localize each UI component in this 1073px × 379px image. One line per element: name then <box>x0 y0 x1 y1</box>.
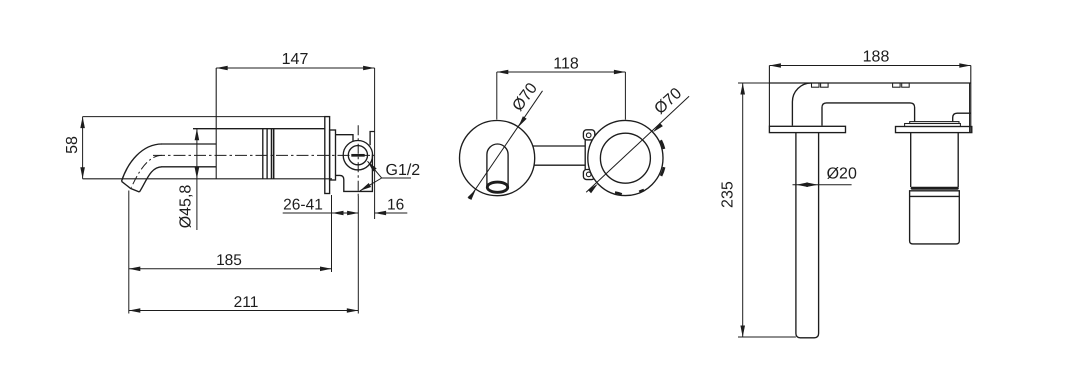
dimension 188 line <box>769 65 970 67</box>
235 top extension <box>738 82 769 84</box>
body left end face / 147 left extension <box>215 68 217 179</box>
G1/2 leader to front port <box>368 161 382 178</box>
port inner circle (G1/2 thread) <box>348 146 367 165</box>
diameter 70 left leader line <box>469 91 543 199</box>
collar behind flange <box>330 130 336 180</box>
spout tube front view (rounded top slot) <box>487 144 508 186</box>
clip pair 1 <box>812 83 820 87</box>
svg-text:58: 58 <box>64 136 81 154</box>
handle body <box>910 191 960 244</box>
147 arrows <box>216 66 228 71</box>
cartridge ring B <box>905 124 961 127</box>
dimension 26-41 line <box>283 212 359 214</box>
spout inner curve <box>139 167 162 192</box>
left escutcheon circle <box>460 121 535 196</box>
dimension 147 <box>216 67 374 69</box>
centerline extension down to 211 dim <box>357 196 359 314</box>
d20 arrows <box>796 182 808 187</box>
cartridge recess rounded rect <box>822 103 915 126</box>
svg-text:188: 188 <box>863 49 890 66</box>
connecting bar top line <box>530 145 585 147</box>
58 top extension line (flange top level) <box>83 116 325 118</box>
diameter 70 right leader line <box>586 96 689 192</box>
235 bottom extension <box>738 336 796 338</box>
G1/2 leader to bottom port <box>360 178 382 191</box>
118 left extension <box>496 72 498 120</box>
svg-text:235: 235 <box>720 181 737 208</box>
svg-text:16: 16 <box>387 197 404 214</box>
dimension 58 line <box>82 117 84 179</box>
port vertical centerline <box>357 125 359 196</box>
right step of body bottom <box>953 113 971 121</box>
spout tube top line <box>162 143 217 145</box>
groove dark band <box>911 187 959 190</box>
svg-text:Ø20: Ø20 <box>827 166 857 183</box>
spout centerline (dash-dot, curved at tip) <box>131 155 162 187</box>
spout tip extension line down <box>128 191 130 314</box>
d45,8 arrows <box>195 129 200 141</box>
G1/2 leader arrows <box>359 183 371 193</box>
58 arrows <box>80 117 85 129</box>
top ear screw hole <box>586 133 591 138</box>
body left edge <box>768 66 770 127</box>
extension line flange edge down <box>331 195 333 272</box>
spout mouth ellipse <box>487 182 507 192</box>
body joint ring lines <box>262 129 264 179</box>
svg-text:147: 147 <box>282 51 309 68</box>
dimension 16 line <box>375 212 408 214</box>
spout body bottom edge (long line to 58 dim) <box>83 178 332 180</box>
26-41 arrows <box>332 211 344 216</box>
in-wall body top edge <box>769 82 970 84</box>
cartridge ring step A <box>910 122 959 124</box>
clip tab right lower <box>661 167 664 176</box>
211 arrows <box>129 308 141 313</box>
wall flange plate <box>325 117 330 194</box>
d70 right arrows <box>651 123 663 134</box>
right escutcheon outer circle <box>588 120 663 195</box>
185 arrows <box>129 267 141 272</box>
svg-text:185: 185 <box>216 252 242 269</box>
handle collar line <box>910 195 960 197</box>
spout escutcheon plate <box>769 126 845 132</box>
valve body top edge and step to port boss <box>336 135 354 141</box>
spout body top edge <box>193 128 325 130</box>
diameter 20 dimension line <box>793 184 852 186</box>
port slot bar <box>351 154 364 157</box>
188 arrows <box>769 63 781 68</box>
spout pipe elbow inner line <box>792 83 811 126</box>
valve body outline <box>336 155 373 192</box>
dimension 118 line <box>497 71 626 73</box>
16 arrow <box>375 211 387 216</box>
clip tab right upper <box>661 140 664 149</box>
valve cylinder <box>911 133 959 187</box>
bracket bottom ear <box>583 170 594 180</box>
svg-text:118: 118 <box>553 56 579 73</box>
d70 left arrows <box>516 116 526 128</box>
clip pair 2 <box>893 83 901 87</box>
wall-anchor tab top right <box>370 132 375 146</box>
spout tube bottom line <box>162 166 217 168</box>
dimension 235 line <box>742 83 744 337</box>
G1/2 leader underline <box>382 177 411 179</box>
spout tube with rounded bottom <box>796 133 819 338</box>
right escutcheon inner circle <box>600 133 650 183</box>
clip tab bottom left <box>615 192 622 194</box>
port boss outer circle <box>343 141 372 170</box>
spout outer curve <box>122 144 163 181</box>
svg-text:Ø45,8: Ø45,8 <box>178 185 195 229</box>
118 arrows <box>497 70 509 75</box>
bracket top ear <box>583 130 594 140</box>
svg-text:211: 211 <box>234 294 259 311</box>
body right edge (double) <box>970 66 972 133</box>
main horizontal centerline <box>153 154 374 156</box>
bottom ear screw hole <box>586 172 591 177</box>
118 right extension <box>624 72 626 120</box>
235 arrows <box>740 83 745 95</box>
clip tab bottom right <box>639 190 644 192</box>
svg-text:26-41: 26-41 <box>283 197 323 214</box>
svg-text:G1/2: G1/2 <box>386 162 421 179</box>
bracket left edge <box>584 140 586 170</box>
dimension 185 line <box>129 268 332 270</box>
dimension 211 line <box>129 310 358 312</box>
valve escutcheon plate <box>896 127 972 133</box>
extension line right (wall plane) <box>374 68 376 219</box>
spout tip cut line <box>122 181 140 192</box>
connecting bar bottom line <box>530 164 585 166</box>
dimension diameter 45,8 line <box>196 129 198 230</box>
